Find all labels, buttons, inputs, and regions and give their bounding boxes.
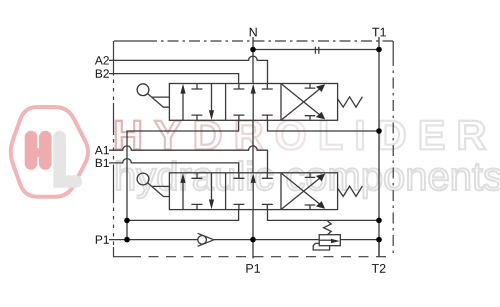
wire tank bus under valve 2 right	[268, 210, 379, 221]
junction node N	[250, 47, 256, 53]
valve V2 position a (parallel arrows)	[183, 173, 212, 210]
junction node left bus 2	[124, 218, 130, 224]
junction node tank bus 1	[376, 128, 382, 134]
wire tank bus under valve 1 left	[127, 120, 239, 239]
label A1	[95, 146, 109, 154]
junction node T2	[376, 237, 382, 243]
label T1	[372, 28, 386, 37]
wire tank bus under valve 2 left	[127, 210, 239, 221]
wire P1 inlet line	[109, 239, 379, 241]
valve V1 position b (crossed arrows)	[282, 84, 322, 121]
valve V2 lever actuator	[137, 173, 169, 196]
wire A1	[109, 146, 268, 173]
junction node T1	[376, 47, 382, 53]
junction node P1 left	[124, 237, 130, 243]
label B1	[96, 159, 109, 167]
wire P1 bottom stub	[252, 240, 254, 259]
wire P link valve2 to P1 line	[252, 210, 254, 240]
wire N link valve1 to valve2	[252, 120, 254, 173]
wire B1	[109, 159, 239, 173]
wire T2 stub	[378, 239, 380, 257]
valve V2 body	[169, 173, 337, 210]
wire N to T1	[253, 49, 379, 51]
node enclosure: valve block boundary	[114, 41, 394, 257]
valve V1 position 0 (neutral open centre)	[233, 84, 272, 121]
wire tank bus under valve 1 right	[268, 120, 379, 131]
wire N drop	[252, 37, 254, 84]
valve V2 position b (crossed arrows)	[282, 173, 322, 210]
label P1	[246, 264, 260, 273]
label T2	[372, 264, 386, 273]
label N	[250, 28, 257, 37]
label B2	[96, 69, 109, 77]
junction node P1 centre	[250, 237, 256, 243]
plug symbol on N-T1 line	[315, 47, 318, 54]
check valve CV1	[198, 233, 214, 246]
valve V2 spring	[338, 186, 363, 196]
valve V1 body	[169, 84, 337, 121]
relief valve RV1	[313, 221, 340, 250]
valve V1 lever actuator	[137, 84, 169, 107]
wire A2	[109, 56, 268, 83]
label P1	[96, 235, 109, 243]
valve V2 position 0 (neutral open centre)	[233, 173, 272, 210]
valve V1 position a (parallel arrows)	[183, 84, 212, 121]
wire T1 vertical	[378, 37, 380, 257]
label A2	[95, 56, 109, 64]
wire B2	[109, 74, 239, 84]
valve V1 spring	[338, 97, 363, 107]
junction node right bus 2	[376, 218, 382, 224]
